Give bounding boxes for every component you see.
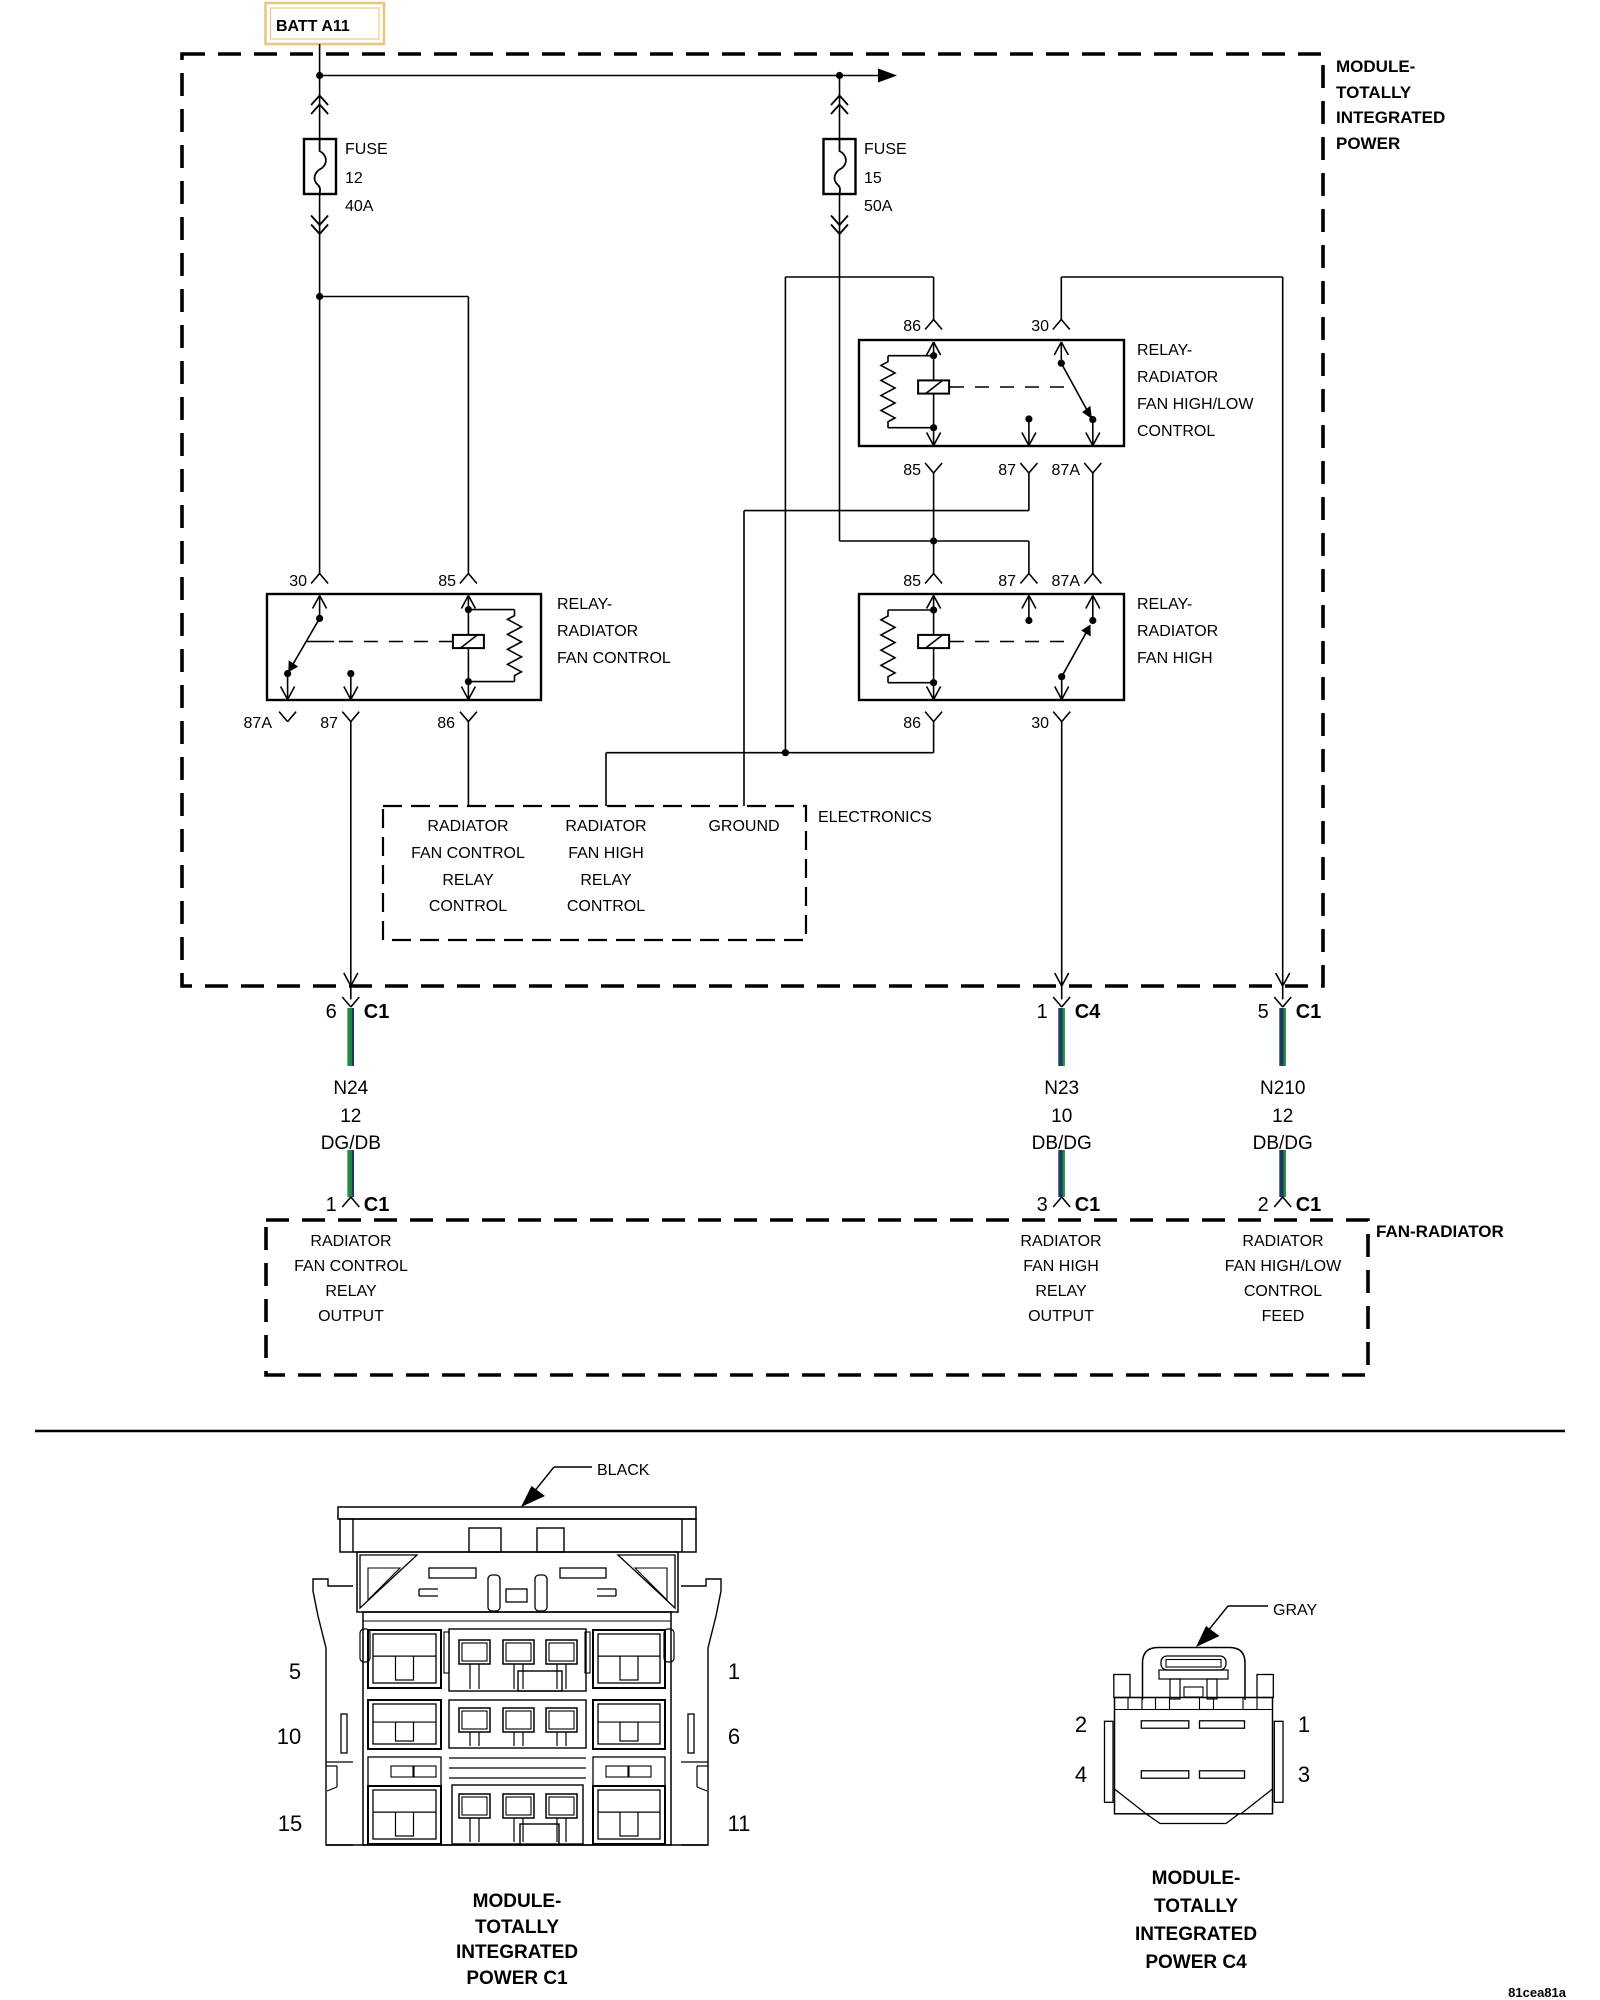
K2 contact 87 node: [1025, 415, 1032, 422]
svg-text:CONTROL: CONTROL: [567, 898, 645, 915]
svg-text:1: 1: [728, 1659, 740, 1684]
svg-text:4: 4: [1075, 1762, 1087, 1787]
K3 coil winding: [933, 610, 935, 683]
K1 pin 30 entry arrow: [313, 596, 320, 609]
wire K2-85 to K3-85: [933, 473, 935, 574]
K2 pin 85 exit arrow: [933, 428, 935, 446]
svg-text:BATT A11: BATT A11: [276, 18, 350, 35]
K3 contact 87 node: [1025, 617, 1032, 624]
svg-text:INTEGRATED: INTEGRATED: [1336, 108, 1445, 127]
K2 contact 87A node: [1089, 416, 1096, 423]
K3 switch blade to 87A: [1062, 632, 1087, 677]
svg-text:N23: N23: [1044, 1078, 1079, 1099]
K1 pin 87A exit arrow: [287, 674, 289, 700]
svg-text:85: 85: [438, 573, 456, 590]
connector chevrons below fuse 12: [311, 216, 328, 226]
svg-text:86: 86: [437, 715, 455, 732]
relay K1 box RELAY-RADIATOR FAN CONTROL: [267, 594, 541, 700]
svg-text:40A: 40A: [345, 198, 374, 215]
K1 pin 87 exit arrow: [350, 674, 352, 700]
svg-text:RADIATOR: RADIATOR: [565, 818, 646, 835]
svg-text:INTEGRATED: INTEGRATED: [456, 1942, 578, 1963]
svg-text:30: 30: [1031, 715, 1049, 732]
svg-text:11: 11: [728, 1811, 751, 1836]
svg-text:C1: C1: [1296, 1194, 1322, 1216]
svg-text:FAN HIGH: FAN HIGH: [1023, 1258, 1099, 1275]
section separator line: [35, 1430, 1565, 1433]
K1 switch blade to 87A: [293, 618, 320, 665]
wire fuse 12 to relay branch: [319, 194, 321, 297]
connector C1 color callout BLACK: [554, 1466, 592, 1468]
wire K2-87 to ground node: [1028, 473, 1030, 511]
svg-text:FAN CONTROL: FAN CONTROL: [557, 650, 671, 667]
K2 pin 30 entry arrow: [1054, 342, 1061, 355]
svg-text:TOTALLY: TOTALLY: [1154, 1896, 1238, 1917]
K1 contact 87 node: [347, 670, 354, 677]
K1 pin 86 exit arrow: [467, 682, 469, 700]
svg-text:RELAY: RELAY: [1035, 1283, 1087, 1300]
svg-text:86: 86: [903, 318, 921, 335]
wire BATT A11 to junction: [319, 44, 321, 76]
connector chevrons above fuse 12: [311, 96, 328, 106]
svg-text:CONTROL: CONTROL: [1244, 1283, 1322, 1300]
K2 pin 87 terminal below: [1020, 463, 1029, 473]
svg-text:ELECTRONICS: ELECTRONICS: [818, 809, 932, 826]
svg-text:FAN HIGH: FAN HIGH: [568, 845, 644, 862]
module box MODULE-TOTALLY INTEGRATED POWER (dashed): [182, 54, 1323, 986]
wire fuse 15 horizontal to pin 87: [840, 540, 1029, 542]
wire ground drop to electronics: [743, 511, 745, 806]
K3 pin 86 exit arrow: [933, 683, 935, 700]
svg-text:RELAY-: RELAY-: [557, 596, 612, 613]
svg-text:RELAY-: RELAY-: [1137, 342, 1192, 359]
connector chevrons above fuse 15: [831, 96, 848, 106]
wire branch to pin 85 (horiz): [320, 296, 469, 298]
K1 coil top node: [465, 606, 472, 613]
svg-text:FUSE: FUSE: [864, 141, 907, 158]
svg-text:1: 1: [1298, 1712, 1310, 1737]
K1 pin 85 terminal above: [460, 574, 469, 584]
fuse F15: [824, 139, 856, 194]
K3 coil-armature dashed link: [950, 641, 1067, 643]
K2 pin 30 terminal: [1053, 320, 1062, 330]
svg-text:12: 12: [1272, 1106, 1293, 1127]
K2 pin 86 terminal: [925, 320, 934, 330]
svg-text:30: 30: [289, 573, 307, 590]
wire K2 pin86 control drop: [784, 277, 786, 753]
connector chevrons below fuse 15: [831, 216, 848, 226]
svg-text:TOTALLY: TOTALLY: [1336, 83, 1412, 102]
K1 pin 87A terminal below: [279, 712, 288, 722]
svg-text:MODULE-: MODULE-: [473, 1891, 562, 1912]
svg-text:RADIATOR: RADIATOR: [310, 1233, 391, 1250]
relay K3 box RELAY-RADIATOR FAN HIGH: [859, 594, 1124, 700]
svg-text:TOTALLY: TOTALLY: [475, 1917, 559, 1938]
svg-text:15: 15: [864, 170, 882, 187]
connector C1 face drawing (black 15-way): [313, 1507, 721, 1845]
K3 pin 30 terminal below: [1053, 712, 1062, 722]
K1 coil bottom node: [465, 678, 472, 685]
wire K3-30 to C4-1: [1061, 722, 1063, 986]
svg-text:MODULE-: MODULE-: [1152, 1868, 1241, 1889]
svg-text:RADIATOR: RADIATOR: [427, 818, 508, 835]
K2 coil winding: [933, 356, 935, 428]
svg-text:RADIATOR: RADIATOR: [1137, 369, 1218, 386]
K2 coil suppression resistor: [888, 355, 934, 357]
K1 contact 87A node: [284, 670, 291, 677]
rail continuation arrow: [878, 69, 897, 83]
K3 coil top node: [930, 606, 937, 613]
wire N23 circuit C4-1 to C1-3 (DB/DG): [1061, 986, 1063, 999]
svg-text:81cea81a: 81cea81a: [1508, 1985, 1567, 2000]
svg-text:RELAY-: RELAY-: [1137, 596, 1192, 613]
K2 switch blade to 87A: [1061, 363, 1087, 411]
K2 coil bottom node: [930, 424, 937, 431]
K1 pin 86 terminal below: [460, 712, 469, 722]
wire junction to fuse 15: [839, 76, 841, 140]
junction K2-86 control tap: [782, 749, 789, 756]
K3 pin 87A terminal above: [1084, 574, 1093, 584]
svg-text:3: 3: [1298, 1762, 1310, 1787]
svg-text:FAN CONTROL: FAN CONTROL: [411, 845, 525, 862]
relay K2 box RELAY-RADIATOR FAN HIGH/LOW CONTROL: [859, 340, 1124, 446]
svg-text:50A: 50A: [864, 198, 893, 215]
K3 pin 85 terminal above: [925, 574, 934, 584]
wire junction down to pin 30: [319, 297, 321, 574]
junction fan-high relay pin 85 feed: [930, 537, 937, 544]
svg-text:3: 3: [1037, 1194, 1048, 1216]
svg-text:30: 30: [1031, 318, 1049, 335]
svg-text:87A: 87A: [1052, 573, 1081, 590]
wire C1-5 feed down: [1282, 277, 1284, 986]
wire N24 circuit C1-6 to C1-1 (DG/DB): [350, 986, 352, 999]
wire down to fan-high pin 87: [1028, 541, 1030, 574]
K3 coil bottom node: [930, 679, 937, 686]
svg-text:12: 12: [340, 1106, 361, 1127]
svg-text:BLACK: BLACK: [597, 1462, 650, 1479]
svg-text:C4: C4: [1075, 1001, 1101, 1023]
K1 coil suppression resistor: [468, 609, 514, 611]
svg-text:RADIATOR: RADIATOR: [1242, 1233, 1323, 1250]
svg-text:6: 6: [728, 1724, 740, 1749]
svg-text:15: 15: [278, 1811, 302, 1836]
connector C4 face drawing (gray 4-way): [1105, 1648, 1284, 1824]
K2 pin 87A exit arrow: [1092, 420, 1094, 446]
svg-text:CONTROL: CONTROL: [1137, 423, 1215, 440]
svg-text:FAN HIGH: FAN HIGH: [1137, 650, 1213, 667]
svg-text:2: 2: [1258, 1194, 1269, 1216]
svg-text:RELAY: RELAY: [442, 872, 494, 889]
wire N210 circuit C1-5 to C1-2 (DB/DG): [1282, 986, 1284, 999]
K3 pin 30 exit arrow: [1061, 677, 1063, 700]
junction relay coil branch: [316, 293, 323, 300]
svg-text:FAN HIGH/LOW: FAN HIGH/LOW: [1225, 1258, 1342, 1275]
svg-text:86: 86: [903, 715, 921, 732]
wire K1-87 to C1-6: [350, 722, 352, 986]
wire branch down to pin 85: [467, 297, 469, 574]
svg-text:C1: C1: [364, 1194, 390, 1216]
svg-text:RADIATOR: RADIATOR: [1137, 623, 1218, 640]
K1 pin 85 entry arrow: [461, 596, 468, 609]
junction fuse 15 tap: [836, 72, 843, 79]
svg-text:RADIATOR: RADIATOR: [557, 623, 638, 640]
wire K1-86 to electronics: [467, 722, 469, 806]
connector C4 color callout GRAY: [1228, 1605, 1268, 1607]
svg-text:10: 10: [1051, 1106, 1072, 1127]
svg-text:FUSE: FUSE: [345, 141, 388, 158]
K1 switch common node: [316, 615, 323, 622]
svg-text:GROUND: GROUND: [708, 818, 779, 835]
power feed label box BATT A11: [266, 3, 385, 44]
K3 pin 87A entry arrow: [1086, 596, 1093, 609]
svg-text:CONTROL: CONTROL: [429, 898, 507, 915]
K2 pin 87 exit arrow: [1028, 419, 1030, 446]
K2 coil top node: [930, 352, 937, 359]
wire fuse 15 down: [839, 194, 841, 541]
wire K3-86 control: [933, 722, 935, 753]
wire rail K2 pin 30 to C1-5: [1061, 276, 1282, 278]
svg-text:POWER C4: POWER C4: [1145, 1952, 1247, 1973]
svg-text:OUTPUT: OUTPUT: [318, 1308, 384, 1325]
svg-text:N210: N210: [1260, 1078, 1305, 1099]
svg-text:87: 87: [998, 462, 1016, 479]
svg-text:85: 85: [903, 462, 921, 479]
svg-text:FAN-RADIATOR: FAN-RADIATOR: [1376, 1222, 1504, 1241]
svg-text:87A: 87A: [1052, 462, 1081, 479]
electronics box (dashed): [383, 806, 806, 940]
K3 pin 87 entry arrow: [1022, 596, 1029, 609]
K1 pin 87 terminal below: [342, 712, 351, 722]
fuse F12: [304, 139, 336, 194]
svg-text:RELAY: RELAY: [325, 1283, 377, 1300]
wire rail to relay K2 pin 86: [785, 276, 933, 278]
K2 coil-armature dashed link: [950, 386, 1067, 388]
svg-text:INTEGRATED: INTEGRATED: [1135, 1924, 1257, 1945]
K2 pin 87A terminal below: [1084, 463, 1093, 473]
svg-text:85: 85: [903, 573, 921, 590]
K3 pin 85 entry arrow: [927, 596, 934, 609]
svg-text:POWER C1: POWER C1: [466, 1968, 568, 1989]
K2 pin 86 entry arrow: [927, 342, 934, 355]
wire K2-87A to K3-87A: [1092, 473, 1094, 574]
K2 switch common node: [1058, 360, 1065, 367]
svg-text:6: 6: [326, 1001, 337, 1023]
K1 coil winding: [467, 610, 469, 682]
svg-text:2: 2: [1075, 1712, 1087, 1737]
svg-text:RELAY: RELAY: [580, 872, 632, 889]
svg-text:MODULE-: MODULE-: [1336, 57, 1415, 76]
svg-text:RADIATOR: RADIATOR: [1020, 1233, 1101, 1250]
K3 pin 86 terminal below: [925, 712, 934, 722]
K3 contact 87A node: [1089, 617, 1096, 624]
svg-text:OUTPUT: OUTPUT: [1028, 1308, 1094, 1325]
svg-text:C1: C1: [1296, 1001, 1322, 1023]
svg-text:FAN CONTROL: FAN CONTROL: [294, 1258, 408, 1275]
junction fuse 12 tap: [316, 72, 323, 79]
svg-text:12: 12: [345, 170, 363, 187]
svg-text:87: 87: [998, 573, 1016, 590]
svg-text:FAN HIGH/LOW: FAN HIGH/LOW: [1137, 396, 1254, 413]
svg-text:POWER: POWER: [1336, 134, 1400, 153]
K2 pin 85 terminal below: [925, 463, 934, 473]
svg-text:10: 10: [277, 1724, 301, 1749]
K1 pin 30 terminal above: [311, 574, 320, 584]
svg-text:5: 5: [289, 1659, 301, 1684]
K3 coil suppression resistor: [888, 609, 934, 611]
wire junction to fuse 12: [319, 76, 321, 140]
battery bus rail: [320, 75, 888, 77]
svg-text:1: 1: [326, 1194, 337, 1216]
svg-text:1: 1: [1037, 1001, 1048, 1023]
svg-text:FEED: FEED: [1262, 1308, 1305, 1325]
svg-text:C1: C1: [1075, 1194, 1101, 1216]
svg-text:87: 87: [320, 715, 338, 732]
svg-text:N24: N24: [333, 1078, 368, 1099]
svg-text:C1: C1: [364, 1001, 390, 1023]
K3 pin 87 terminal above: [1020, 574, 1029, 584]
svg-text:87A: 87A: [244, 715, 273, 732]
K1 coil-armature dashed link: [336, 641, 453, 643]
K3 switch common node: [1058, 673, 1065, 680]
fan-radiator box (dashed): [266, 1220, 1368, 1375]
svg-text:5: 5: [1258, 1001, 1269, 1023]
svg-text:GRAY: GRAY: [1273, 1602, 1317, 1619]
